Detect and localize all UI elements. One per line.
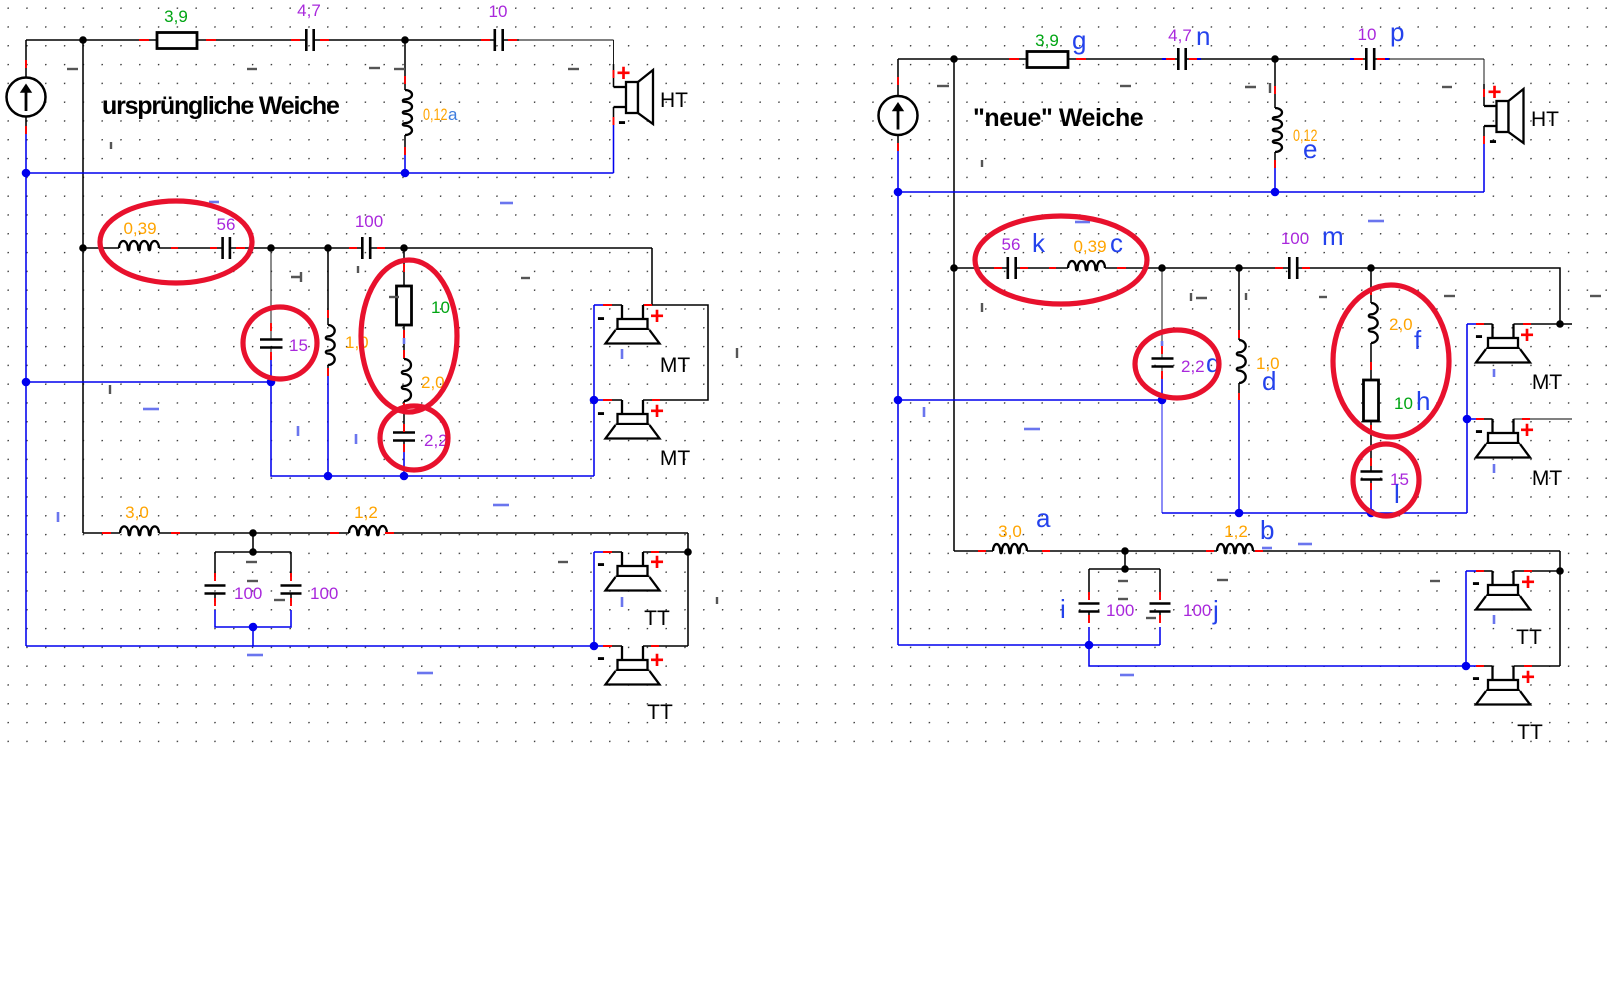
inductor 1,0	[326, 325, 335, 365]
node junction at 405,40	[401, 36, 409, 44]
wire cap bank box top	[215, 552, 291, 577]
wire TT minus links r	[1466, 570, 1476, 572]
inductor 1,2 r	[1217, 544, 1253, 553]
node junction at 1560,571	[1556, 567, 1564, 575]
inductor 1,2	[349, 526, 387, 535]
svg-text:i: i	[1060, 594, 1066, 624]
wire cap bank drop	[252, 533, 254, 552]
wire blue top bus r	[898, 151, 1484, 192]
wire TT feed r	[1559, 551, 1561, 666]
svg-text:-: -	[597, 399, 605, 426]
wire L2,0 to R10 r	[1370, 343, 1372, 380]
resistor 3,9	[157, 33, 197, 49]
capacitor 100 rr	[1150, 604, 1171, 612]
wire blue TT bus	[26, 645, 594, 647]
capacitor 100 right	[281, 586, 302, 594]
node junction (return net) at 1371,513	[1367, 509, 1376, 518]
speaker MT bottom r	[1476, 419, 1530, 458]
wire MT feed to speakers	[651, 248, 653, 305]
inductor 0,12 r	[1273, 108, 1282, 152]
capacitor 100 rl	[1079, 604, 1100, 612]
node TT junction	[249, 529, 257, 537]
svg-text:3,0: 3,0	[998, 522, 1022, 541]
node junction (return net) at 594,646	[590, 642, 599, 651]
capacitor 100 left	[205, 586, 226, 594]
node MT junctions	[267, 244, 275, 252]
svg-text:MT: MT	[1532, 467, 1562, 490]
node junction (return net) at 898,192	[894, 188, 903, 197]
node junction at 328,248	[324, 244, 332, 252]
svg-text:100: 100	[234, 584, 262, 603]
wire cap15 lower r	[1370, 480, 1372, 489]
node junction at 1125,569	[1121, 565, 1129, 573]
svg-text:4,7: 4,7	[297, 1, 321, 20]
node junction at 83,248	[79, 244, 87, 252]
svg-text:-: -	[597, 550, 605, 577]
speaker MT bottom	[606, 400, 660, 439]
node junction at 253,552	[249, 548, 257, 556]
svg-text:-: -	[1472, 664, 1480, 691]
svg-text:100: 100	[310, 584, 338, 603]
capacitor 56 r	[1008, 257, 1016, 279]
svg-text:k: k	[1032, 228, 1046, 258]
svg-text:10: 10	[489, 2, 508, 21]
capacitor 2,2	[393, 433, 415, 441]
wire blue MT bottom bus r	[1162, 512, 1467, 514]
svg-text:l: l	[1394, 479, 1400, 509]
speaker TT bottom	[606, 646, 660, 685]
highlight ellipse 56+0,39 r	[975, 216, 1147, 304]
capacitor 56	[223, 237, 230, 259]
wire MT rail	[83, 247, 652, 249]
wire cap2,2 branch r	[1161, 268, 1163, 358]
resistor 10 r	[1364, 380, 1379, 421]
node junction at 688,552	[684, 548, 692, 556]
svg-text:+: +	[616, 60, 630, 87]
svg-text:56: 56	[1002, 235, 1021, 254]
wire 1,0 branch r	[1238, 268, 1240, 340]
red terminal ticks right	[897, 77, 899, 151]
svg-text:+: +	[650, 398, 664, 425]
node junction at 1275,59	[1271, 55, 1279, 63]
wire HT drop r	[1483, 59, 1485, 84]
svg-text:"neue" Weiche: "neue" Weiche	[973, 104, 1144, 132]
svg-text:a: a	[1036, 503, 1051, 533]
svg-text:+: +	[650, 303, 664, 330]
svg-text:c: c	[1110, 228, 1123, 258]
wire 0,12 branch	[404, 40, 406, 155]
wire blue MT bus	[26, 382, 594, 476]
svg-text:m: m	[1322, 221, 1344, 251]
capacitor 15 r	[1361, 472, 1383, 480]
wire MT2 plus thin r	[1514, 418, 1573, 420]
capacitor 2,2 r	[1152, 359, 1174, 367]
highlight ellipse 10+2,0	[361, 260, 457, 412]
node junction at 1560,324	[1556, 320, 1564, 328]
node junction at 1239,268	[1235, 264, 1243, 272]
wire TT rail	[83, 532, 688, 534]
svg-text:-: -	[1489, 127, 1497, 154]
wire cap2,2 lower r	[1161, 367, 1163, 377]
wire MT minus links	[594, 304, 603, 306]
inductor 0,39 r	[1068, 261, 1105, 270]
svg-text:10: 10	[1358, 25, 1377, 44]
wire HT drop	[613, 40, 615, 64]
node top junctions	[950, 55, 958, 63]
node junction (return net) at 1275,192	[1271, 188, 1280, 197]
svg-text:-: -	[1475, 417, 1483, 444]
svg-text:-: -	[1475, 322, 1483, 349]
wire cap bank box r	[1089, 569, 1160, 595]
capacitor 4,7	[306, 29, 313, 51]
wire MT minus r	[1467, 323, 1476, 325]
svg-text:TT: TT	[647, 701, 673, 724]
wire top rail	[26, 39, 519, 41]
current source I1	[7, 78, 46, 117]
wire top rail	[898, 58, 1390, 60]
svg-text:a: a	[448, 105, 458, 124]
red terminal ticks left	[25, 60, 27, 134]
svg-text:+: +	[1487, 79, 1501, 106]
current source I2	[879, 96, 918, 135]
wire TT rail r	[954, 550, 1560, 552]
svg-text:p: p	[1390, 17, 1404, 47]
svg-text:-: -	[597, 304, 605, 331]
stray gray marks right	[937, 85, 949, 87]
node junction at 954,268	[950, 264, 958, 272]
highlight ellipse 0,39+56	[100, 201, 252, 283]
speaker TT top r	[1476, 571, 1530, 610]
inductor 3,0 r	[993, 544, 1027, 553]
wire blue MT bus r	[898, 399, 1162, 401]
svg-text:TT: TT	[1517, 721, 1543, 744]
wire R10 to L2,0	[403, 325, 405, 359]
svg-text:0,39: 0,39	[1073, 237, 1106, 256]
wire HT minus drop	[613, 107, 615, 117]
inductor 1,0 r	[1237, 340, 1246, 383]
node junction (return net) at 1467,419	[1463, 415, 1472, 424]
svg-text:56: 56	[217, 215, 236, 234]
node junction (return net) at 1162,400	[1158, 396, 1167, 405]
node junction (return net) at 594,400	[590, 396, 599, 405]
svg-text:TT: TT	[1516, 626, 1542, 649]
wire TT feed	[687, 533, 689, 646]
svg-text:d: d	[1262, 366, 1276, 396]
highlight circle 2,2	[380, 406, 448, 470]
stray gray marks left	[67, 68, 78, 70]
svg-text:ursprüngliche Weiche: ursprüngliche Weiche	[102, 92, 340, 120]
node junction (return net) at 1239,513	[1235, 509, 1244, 518]
wire L2,0 to cap2,2	[403, 401, 405, 432]
wire R10 branch	[403, 248, 405, 286]
svg-text:MT: MT	[1532, 371, 1562, 394]
inductor 3,0	[120, 526, 159, 535]
svg-text:b: b	[1260, 515, 1274, 545]
wire source stubs	[897, 59, 899, 151]
svg-text:+: +	[1521, 664, 1535, 691]
wire source bottom stub	[25, 116, 27, 134]
svg-text:f: f	[1414, 325, 1422, 355]
stray blue marks right	[1368, 220, 1384, 223]
node junction (return net) at 898,400	[894, 396, 903, 405]
node TT junction r	[1121, 547, 1129, 555]
svg-text:100: 100	[1281, 229, 1309, 248]
node MT junctions r	[1158, 264, 1166, 272]
svg-text:100: 100	[355, 212, 383, 231]
svg-text:+: +	[1520, 417, 1534, 444]
svg-text:+: +	[1520, 322, 1534, 349]
highlight marks on top	[100, 201, 1449, 516]
svg-text:j: j	[1212, 595, 1219, 625]
wire cap bank lower r	[1089, 612, 1160, 621]
wire 0,12 branch	[1274, 59, 1276, 168]
resistor 3,9	[1027, 52, 1068, 68]
speaker MT top	[606, 305, 660, 344]
wire source top stub	[25, 40, 27, 78]
highlight ellipse 2,0+10 r	[1333, 285, 1449, 437]
svg-text:HT: HT	[1531, 108, 1559, 131]
svg-text:MT: MT	[660, 354, 690, 377]
node junction (return net) at 1466,666	[1462, 662, 1471, 671]
svg-text:+: +	[1521, 569, 1535, 596]
wire 2,0 branch r	[1370, 268, 1372, 303]
svg-text:1,2: 1,2	[1224, 522, 1248, 541]
svg-text:3,9: 3,9	[164, 7, 188, 26]
node junction (return net) at 404,476	[400, 472, 409, 481]
node junction at 1371,268	[1367, 264, 1375, 272]
wire blue left vertical	[25, 173, 27, 646]
svg-text:1,2: 1,2	[354, 503, 378, 522]
node junction (return net) at 26,173	[22, 169, 31, 178]
stray blue marks left	[500, 202, 513, 205]
speaker HT r	[1484, 89, 1524, 143]
wire MT rail r	[954, 267, 1371, 269]
wire blue TT bus r	[898, 645, 1466, 666]
node junction (return net) at 253,627	[249, 623, 258, 632]
inductor 0,12	[403, 90, 412, 135]
node junction (return net) at 405,173	[401, 169, 410, 178]
svg-text:100: 100	[1183, 601, 1211, 620]
svg-text:10: 10	[431, 298, 450, 317]
speaker TT bottom r	[1476, 666, 1530, 705]
svg-text:g: g	[1072, 25, 1086, 55]
inductor 2,0 r	[1369, 303, 1378, 343]
svg-text:-: -	[597, 644, 605, 671]
svg-text:+: +	[650, 647, 664, 674]
svg-text:+: +	[650, 549, 664, 576]
wire left vertical x83	[82, 40, 84, 533]
highlight circle 15 r	[1353, 444, 1419, 516]
wire cap15 lower	[270, 348, 272, 357]
svg-text:MT: MT	[660, 447, 690, 470]
wire right vertical x954	[953, 59, 955, 551]
svg-text:2,2: 2,2	[1181, 357, 1205, 376]
node top junctions	[79, 36, 87, 44]
speaker HT	[614, 70, 654, 124]
capacitor 4,7	[1178, 48, 1185, 70]
svg-text:e: e	[1303, 134, 1317, 164]
wire cap2,2 lower	[403, 441, 405, 451]
node junction (return net) at 1089,645	[1085, 641, 1094, 650]
svg-text:100: 100	[1106, 601, 1134, 620]
svg-text:3,9: 3,9	[1035, 31, 1059, 50]
wire cap15 branch	[270, 248, 272, 339]
svg-text:-: -	[618, 108, 626, 135]
svg-text:0,39: 0,39	[123, 219, 156, 238]
wire cap bank lower	[215, 594, 291, 603]
svg-text:-: -	[1472, 569, 1480, 596]
node junction (return net) at 328,476	[324, 472, 333, 481]
svg-text:0,12: 0,12	[423, 105, 448, 124]
highlight circle 15	[243, 307, 317, 379]
svg-text:2,0: 2,0	[1389, 315, 1413, 334]
inductor 0,39	[119, 241, 159, 250]
capacitor 10	[495, 29, 503, 51]
node junction (return net) at 26,382	[22, 378, 31, 387]
inductor 2,0	[402, 359, 411, 401]
svg-text:HT: HT	[660, 89, 688, 112]
svg-text:15: 15	[289, 336, 308, 355]
capacitor 100 r	[1289, 257, 1297, 279]
wire blue hookup 0,12	[404, 155, 406, 173]
svg-text:h: h	[1416, 386, 1430, 416]
wire R10 to cap15 r	[1370, 421, 1372, 472]
wire MT outer rect	[643, 305, 708, 400]
capacitor 100	[362, 237, 370, 259]
speaker MT top r	[1476, 324, 1530, 363]
wire blue top bus	[26, 134, 614, 173]
svg-text:4,7: 4,7	[1168, 26, 1192, 45]
wire blue left vertical r	[897, 192, 899, 645]
wire MT feed r	[1371, 268, 1560, 324]
node junction at 404,248	[400, 244, 408, 252]
highlight circle 2,2 r	[1135, 330, 1219, 398]
svg-text:1,0: 1,0	[345, 333, 369, 352]
node junction (return net) at 271,382	[267, 378, 276, 387]
svg-text:3,0: 3,0	[125, 503, 149, 522]
svg-text:10: 10	[1394, 394, 1413, 413]
capacitor 10	[1366, 48, 1374, 70]
capacitor 15	[260, 340, 283, 348]
resistor 10	[397, 286, 412, 325]
speaker TT top	[606, 552, 660, 591]
wire 1,0 branch	[327, 248, 329, 325]
svg-text:n: n	[1196, 21, 1210, 51]
svg-text:TT: TT	[644, 607, 670, 630]
